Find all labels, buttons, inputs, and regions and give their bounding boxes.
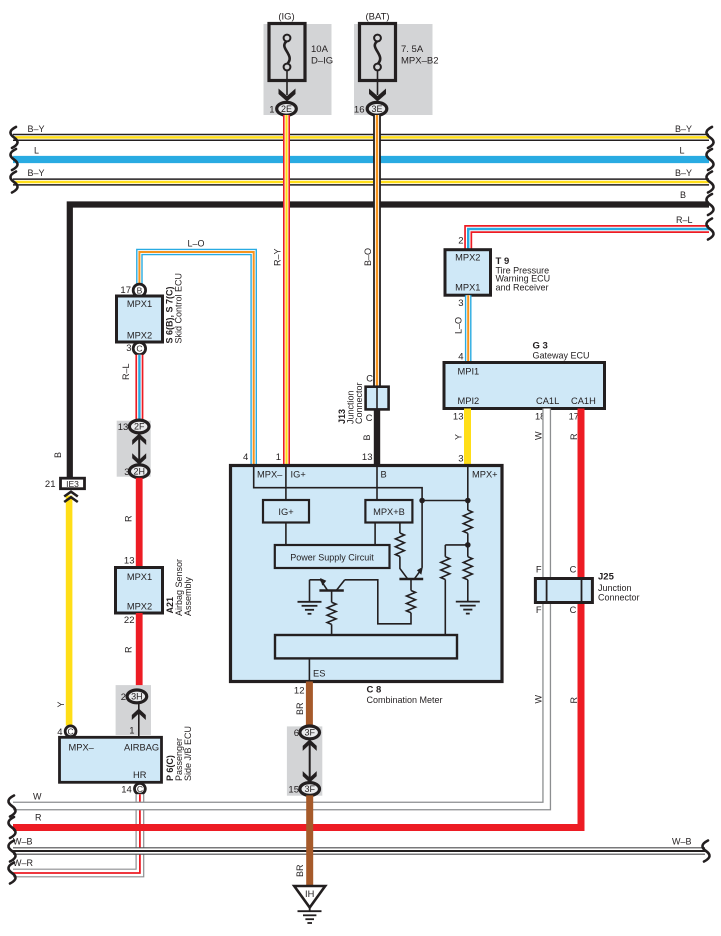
wire L-O T9 MPX1 to gateway MPI1 bbox=[465, 295, 472, 363]
svg-text:R–Y: R–Y bbox=[273, 248, 283, 266]
svg-text:C 8: C 8 bbox=[367, 684, 382, 695]
svg-text:MPX+: MPX+ bbox=[472, 470, 498, 480]
svg-text:MPI2: MPI2 bbox=[458, 396, 480, 406]
svg-text:(BAT): (BAT) bbox=[365, 12, 389, 23]
svg-text:MPX–: MPX– bbox=[257, 470, 283, 480]
svg-text:CA1L: CA1L bbox=[536, 396, 559, 406]
svg-text:C: C bbox=[366, 374, 373, 384]
svg-text:R: R bbox=[569, 433, 579, 440]
svg-text:B–Y: B–Y bbox=[675, 168, 692, 178]
wire B J13 to meter pin 13 bbox=[374, 409, 380, 466]
connector block 2F-2H bbox=[117, 421, 151, 477]
wire W gateway CA1L to J25 bbox=[542, 409, 551, 579]
svg-text:B: B bbox=[362, 434, 372, 440]
svg-text:B–Y: B–Y bbox=[28, 124, 45, 134]
bus B (turns down to IE3) bbox=[70, 205, 709, 480]
bus W-B bbox=[13, 847, 705, 855]
svg-text:3: 3 bbox=[458, 454, 463, 465]
svg-text:BR: BR bbox=[295, 864, 305, 877]
svg-text:17: 17 bbox=[120, 285, 131, 296]
svg-text:Y: Y bbox=[56, 701, 66, 707]
svg-text:R: R bbox=[124, 646, 134, 653]
connector block 3F-3F bbox=[287, 726, 322, 795]
chevrons below IE3 bbox=[64, 492, 78, 502]
svg-text:4: 4 bbox=[458, 352, 463, 363]
svg-text:F: F bbox=[536, 605, 542, 615]
ES pin line bbox=[308, 658, 310, 680]
svg-text:2F: 2F bbox=[134, 422, 145, 432]
skid control ECU S6(B) S7(C) bbox=[117, 296, 163, 342]
svg-text:ES: ES bbox=[313, 669, 325, 679]
svg-text:CA1H: CA1H bbox=[571, 396, 596, 406]
wire L-O skid control B to meter MPX- pin 4 bbox=[139, 252, 253, 467]
svg-text:13: 13 bbox=[118, 422, 129, 433]
internal MPX- line to transistor emitter bbox=[254, 466, 422, 568]
svg-text:MPI1: MPI1 bbox=[458, 367, 480, 377]
svg-text:B–Y: B–Y bbox=[28, 168, 45, 178]
wire Y gateway MPI2 to meter MPX+ bbox=[464, 409, 471, 467]
pin 3 C bbox=[133, 342, 145, 354]
svg-text:7. 5A: 7. 5A bbox=[401, 44, 424, 55]
svg-text:Power Supply Circuit: Power Supply Circuit bbox=[290, 552, 374, 562]
svg-text:MPX+B: MPX+B bbox=[373, 507, 405, 517]
svg-text:and Receiver: and Receiver bbox=[496, 282, 549, 292]
svg-text:B: B bbox=[680, 190, 686, 200]
internal bottom bar box bbox=[275, 635, 457, 658]
connector 16 3E bbox=[367, 102, 387, 115]
passenger side J/B ECU P6(C) bbox=[60, 737, 162, 782]
svg-text:MPX1: MPX1 bbox=[127, 299, 152, 309]
transistor Q1 bbox=[399, 578, 423, 581]
bus B-Y upper bbox=[13, 134, 709, 141]
svg-text:HR: HR bbox=[133, 770, 147, 780]
svg-text:16: 16 bbox=[354, 104, 365, 115]
svg-text:IE3: IE3 bbox=[66, 479, 79, 489]
svg-text:B: B bbox=[137, 285, 143, 295]
svg-text:13: 13 bbox=[362, 452, 373, 463]
ground (internal right) bbox=[456, 602, 480, 614]
svg-text:2: 2 bbox=[458, 236, 463, 247]
bus R-L (turns down to T9 pin 2) bbox=[468, 229, 709, 250]
wire fuse BAT to connector 3E bbox=[377, 70, 379, 95]
svg-text:W: W bbox=[534, 431, 544, 440]
svg-text:MPX2: MPX2 bbox=[127, 602, 152, 612]
bus L bbox=[13, 156, 709, 163]
wire R 2H to airbag sensor MPX1 bbox=[136, 478, 143, 568]
svg-text:3: 3 bbox=[126, 343, 131, 354]
fuse (BAT) 7.5A MPX-B2 panel bbox=[354, 24, 433, 115]
wire R airbag MPX2 to 3H bbox=[136, 613, 143, 690]
svg-text:Assembly: Assembly bbox=[183, 576, 193, 616]
svg-text:(IG): (IG) bbox=[278, 12, 294, 23]
svg-text:B: B bbox=[381, 470, 387, 480]
svg-text:L–O: L–O bbox=[454, 317, 464, 334]
combination meter C8 box bbox=[231, 466, 503, 682]
bus B-Y lower bbox=[13, 178, 709, 185]
svg-text:C: C bbox=[570, 605, 577, 615]
connector 21 IE3 bbox=[61, 478, 85, 489]
svg-text:3F: 3F bbox=[304, 784, 315, 794]
svg-text:R: R bbox=[569, 697, 579, 704]
pin 17 B bbox=[133, 284, 145, 296]
svg-text:IG+: IG+ bbox=[291, 470, 306, 480]
svg-text:MPX–: MPX– bbox=[69, 743, 95, 753]
svg-text:C: C bbox=[136, 344, 142, 354]
svg-text:3: 3 bbox=[458, 298, 463, 309]
bus R (turns up to J25 C) bbox=[13, 578, 581, 828]
wire R-L skid control C to 2F bbox=[135, 355, 143, 421]
svg-text:2H: 2H bbox=[133, 467, 145, 477]
wire R gateway CA1H to J25 bbox=[578, 409, 585, 579]
bus W (turns up to J25 F) bbox=[13, 578, 547, 806]
svg-text:R–L: R–L bbox=[676, 215, 693, 225]
svg-text:W–B: W–B bbox=[13, 836, 33, 846]
svg-text:Side J/B ECU: Side J/B ECU bbox=[183, 726, 193, 781]
svg-text:R: R bbox=[35, 813, 42, 823]
internal MPX+ line, resistors, ground bbox=[467, 466, 469, 511]
wire fuse IG to connector 2E bbox=[286, 70, 288, 95]
wire W-R from pin14 down to bus bbox=[13, 794, 140, 873]
connector 2 3H bbox=[116, 685, 151, 735]
svg-text:W–R: W–R bbox=[13, 858, 34, 868]
pin 4 C bbox=[65, 726, 76, 737]
svg-text:F: F bbox=[536, 565, 542, 575]
svg-text:BR: BR bbox=[295, 702, 305, 715]
svg-text:MPX1: MPX1 bbox=[127, 572, 152, 582]
svg-text:IH: IH bbox=[305, 889, 314, 899]
svg-text:L–O: L–O bbox=[187, 239, 204, 249]
ground (internal left) bbox=[298, 602, 322, 614]
svg-text:L: L bbox=[34, 146, 39, 156]
svg-text:Combination Meter: Combination Meter bbox=[367, 695, 443, 705]
wire R-Y from 2E to combination meter IG+ bbox=[283, 115, 290, 467]
svg-text:C: C bbox=[366, 413, 373, 423]
svg-text:Gateway ECU: Gateway ECU bbox=[533, 351, 590, 361]
svg-text:1: 1 bbox=[276, 452, 281, 463]
svg-text:1: 1 bbox=[129, 726, 134, 737]
svg-text:B–O: B–O bbox=[363, 248, 373, 266]
svg-text:Connector: Connector bbox=[354, 382, 364, 424]
power supply circuit box bbox=[275, 545, 390, 568]
svg-text:B–Y: B–Y bbox=[675, 124, 692, 134]
pin 14 C bbox=[135, 783, 146, 794]
svg-text:3E: 3E bbox=[371, 104, 382, 114]
svg-text:14: 14 bbox=[121, 784, 132, 795]
svg-text:IG+: IG+ bbox=[278, 507, 293, 517]
svg-text:1: 1 bbox=[269, 104, 274, 115]
svg-text:Skid Control ECU: Skid Control ECU bbox=[174, 273, 184, 344]
svg-text:15: 15 bbox=[288, 785, 299, 796]
transistor Q2 with ground bbox=[319, 589, 343, 592]
wire Y from IE3 to P6 ECU pin 4 bbox=[66, 496, 73, 726]
svg-text:MPX2: MPX2 bbox=[127, 331, 152, 341]
svg-text:2: 2 bbox=[121, 692, 126, 703]
connector 1 2E bbox=[277, 102, 297, 115]
node junction dots bbox=[422, 500, 468, 502]
svg-text:W: W bbox=[33, 791, 42, 801]
internal B line and MPX+B box bbox=[376, 466, 378, 501]
svg-text:C: C bbox=[570, 565, 577, 575]
svg-text:MPX–B2: MPX–B2 bbox=[401, 56, 439, 67]
svg-text:3H: 3H bbox=[131, 692, 143, 702]
internal IG+ line and box bbox=[285, 466, 287, 501]
svg-text:MPX1: MPX1 bbox=[455, 283, 480, 293]
wire BR 3F to ground IH bbox=[306, 795, 313, 886]
svg-text:C: C bbox=[68, 726, 74, 736]
svg-text:17: 17 bbox=[569, 412, 579, 422]
ground hatch bbox=[298, 907, 322, 923]
svg-text:W–B: W–B bbox=[672, 836, 692, 846]
wire B-O from 3E to junction connector J13 bbox=[373, 115, 381, 388]
svg-text:12: 12 bbox=[294, 686, 305, 697]
svg-text:L: L bbox=[680, 146, 685, 156]
svg-text:B: B bbox=[53, 452, 63, 458]
svg-text:R: R bbox=[124, 515, 134, 522]
svg-text:13: 13 bbox=[124, 556, 135, 567]
svg-text:4: 4 bbox=[243, 452, 248, 463]
svg-text:Connector: Connector bbox=[598, 592, 640, 602]
svg-text:13: 13 bbox=[453, 412, 464, 423]
svg-text:21: 21 bbox=[45, 479, 56, 490]
svg-text:10A: 10A bbox=[311, 44, 329, 55]
resistor under MPX+B bbox=[399, 523, 401, 534]
svg-text:D–IG: D–IG bbox=[311, 56, 333, 67]
svg-text:W: W bbox=[534, 695, 544, 704]
svg-text:AIRBAG: AIRBAG bbox=[124, 743, 159, 753]
fuse (IG) 10A D-IG panel bbox=[264, 24, 332, 115]
svg-text:3F: 3F bbox=[304, 728, 315, 738]
svg-text:6: 6 bbox=[294, 728, 299, 739]
ground IH triangle bbox=[294, 886, 325, 908]
wire BR meter ES to 3F bbox=[306, 682, 313, 728]
svg-text:3: 3 bbox=[124, 467, 129, 478]
arrow wire 3H to P6 ECU pin 1 bbox=[138, 703, 140, 737]
svg-text:Y: Y bbox=[454, 434, 464, 440]
svg-text:C: C bbox=[137, 784, 143, 794]
svg-text:R–L: R–L bbox=[121, 363, 131, 380]
svg-text:2E: 2E bbox=[281, 104, 292, 114]
svg-text:MPX2: MPX2 bbox=[455, 253, 480, 263]
svg-text:J25: J25 bbox=[598, 572, 615, 583]
svg-text:22: 22 bbox=[124, 615, 135, 626]
